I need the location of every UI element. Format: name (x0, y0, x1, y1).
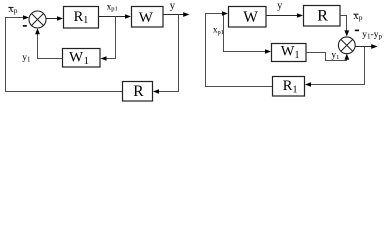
svg-text:y1: y1 (22, 53, 31, 64)
svg-text:xp: xp (9, 4, 18, 15)
svg-text:y1-yp: y1-yp (362, 30, 382, 41)
svg-text:R: R (133, 83, 144, 100)
svg-text:y: y (277, 1, 282, 12)
svg-text:W: W (139, 10, 154, 26)
svg-text:y: y (170, 0, 176, 12)
svg-text:W: W (243, 9, 258, 26)
svg-text:R: R (317, 8, 328, 25)
svg-text:xp: xp (354, 11, 363, 22)
